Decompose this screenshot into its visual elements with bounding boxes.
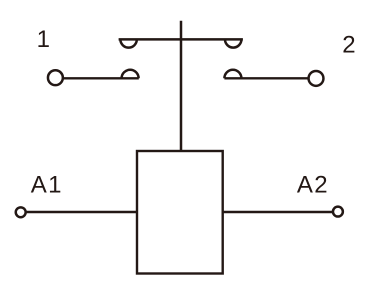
terminal circle A1 <box>16 207 26 217</box>
wire: moving contact bridge bar <box>119 38 243 41</box>
terminal circle 1 <box>48 70 63 85</box>
moving contact right (cup) <box>225 39 241 47</box>
svg-text:A2: A2 <box>297 172 329 199</box>
svg-text:1: 1 <box>37 26 50 53</box>
wire: coil lead A1 <box>26 211 137 213</box>
svg-text:A1: A1 <box>31 172 63 199</box>
coil K1 (rectangle) <box>137 151 223 274</box>
wire: coil lead A2 <box>223 211 333 213</box>
fixed contact right (dome) <box>224 70 241 79</box>
terminal circle 2 <box>309 71 324 86</box>
terminal circle A2 <box>333 207 343 217</box>
wire: actuator shaft from bridge to coil <box>180 21 183 151</box>
fixed contact left (dome) <box>122 70 139 79</box>
moving contact left (cup) <box>120 39 136 47</box>
svg-text:2: 2 <box>342 32 355 59</box>
wire: left fixed-contact lead from terminal 1 <box>63 77 139 79</box>
wire: right fixed-contact lead to terminal 2 <box>224 77 309 79</box>
